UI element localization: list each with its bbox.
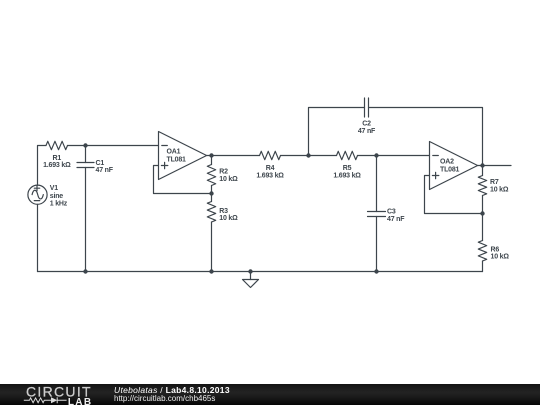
label R1 value — [43, 155, 71, 169]
footer url text — [114, 394, 215, 403]
svg-text:R4: R4 — [266, 165, 275, 172]
svg-text:TL081: TL081 — [440, 166, 460, 173]
resistor R6 — [478, 241, 486, 262]
wire — [37, 204, 39, 271]
ground — [243, 272, 259, 288]
wire — [281, 155, 309, 157]
CircuitLab logo — [0, 384, 110, 405]
svg-text:R1: R1 — [53, 155, 62, 162]
wire — [376, 156, 378, 212]
node C3/rail — [374, 269, 378, 273]
svg-text:C2: C2 — [362, 120, 371, 127]
label V1 value — [50, 185, 68, 207]
svg-text:R3: R3 — [219, 208, 228, 215]
wire — [377, 155, 430, 157]
wire — [68, 145, 86, 147]
svg-text:sine: sine — [50, 193, 64, 200]
voltage source V1 — [28, 185, 47, 204]
wire — [211, 222, 213, 272]
label R7 value — [490, 179, 509, 193]
wire — [482, 196, 484, 214]
resistor R2 — [207, 165, 215, 186]
node R2/R3 junction — [209, 191, 213, 195]
label C2 value — [358, 120, 376, 135]
footer title text — [114, 385, 230, 395]
label C3 value — [387, 208, 405, 222]
svg-text:10 kΩ: 10 kΩ — [491, 254, 510, 261]
svg-text:47 nF: 47 nF — [96, 167, 114, 174]
wire — [482, 261, 484, 272]
svg-text:C1: C1 — [96, 160, 105, 167]
svg-text:R5: R5 — [343, 165, 352, 172]
node R3/rail — [209, 269, 213, 273]
label R4 value — [256, 165, 284, 179]
svg-text:R7: R7 — [490, 179, 499, 186]
wire — [211, 186, 213, 194]
label OA2 — [440, 159, 460, 174]
svg-text:1.693 kΩ: 1.693 kΩ — [256, 172, 284, 179]
wire — [358, 155, 377, 157]
svg-text:47 nF: 47 nF — [358, 128, 376, 135]
resistor R3 — [207, 202, 215, 223]
wire (bottom rail) — [38, 271, 483, 273]
wire — [369, 108, 483, 166]
resistor R1 — [46, 141, 68, 149]
svg-text:TL081: TL081 — [167, 156, 187, 163]
wire — [211, 194, 213, 202]
resistor R4 — [260, 151, 281, 159]
svg-text:1 kHz: 1 kHz — [50, 201, 68, 208]
wire — [376, 217, 378, 272]
label OA1 — [167, 149, 187, 164]
capacitor C1 — [77, 163, 94, 168]
node B — [306, 153, 310, 157]
node C — [374, 153, 378, 157]
wire — [38, 146, 47, 186]
node ground/rail — [248, 269, 252, 273]
op-amp OA2 — [430, 142, 478, 190]
capacitor C3 — [368, 212, 386, 217]
capacitor C2 — [365, 98, 369, 117]
svg-text:R6: R6 — [491, 246, 500, 253]
label R6 value — [491, 246, 510, 260]
svg-text:10 kΩ: 10 kΩ — [219, 215, 238, 222]
svg-text:1.693 kΩ: 1.693 kΩ — [333, 172, 361, 179]
svg-text:R2: R2 — [219, 169, 228, 176]
node OA2 output — [480, 163, 484, 167]
node C1/rail — [83, 269, 87, 273]
wire — [309, 155, 337, 157]
wire — [85, 146, 87, 163]
svg-text:1.693 kΩ: 1.693 kΩ — [43, 162, 71, 169]
svg-text:10 kΩ: 10 kΩ — [490, 186, 509, 193]
node A — [83, 143, 87, 147]
op-amp OA1 — [159, 132, 207, 180]
svg-text:C3: C3 — [387, 208, 396, 215]
svg-text:V1: V1 — [50, 185, 58, 192]
wire — [478, 165, 511, 167]
wire — [154, 166, 212, 194]
wire — [425, 176, 483, 214]
node OA1 output — [209, 153, 213, 157]
node R7/R6 junction — [480, 211, 484, 215]
svg-text:OA1: OA1 — [167, 149, 181, 156]
svg-text:OA2: OA2 — [440, 159, 454, 166]
footer bar — [0, 384, 540, 405]
svg-text:10 kΩ: 10 kΩ — [219, 176, 238, 183]
label R3 value — [219, 208, 238, 222]
label R2 value — [219, 169, 238, 183]
wire — [482, 214, 484, 241]
wire — [482, 166, 484, 176]
label R5 value — [333, 165, 361, 179]
svg-text:LAB: LAB — [68, 397, 92, 405]
wire — [211, 156, 213, 165]
wire — [309, 108, 365, 156]
resistor R7 — [478, 176, 486, 196]
resistor R5 — [337, 151, 358, 159]
wire — [86, 145, 159, 147]
label C1 value — [96, 160, 114, 174]
wire — [207, 155, 260, 157]
wire — [85, 168, 87, 272]
svg-text:47 nF: 47 nF — [387, 216, 405, 223]
